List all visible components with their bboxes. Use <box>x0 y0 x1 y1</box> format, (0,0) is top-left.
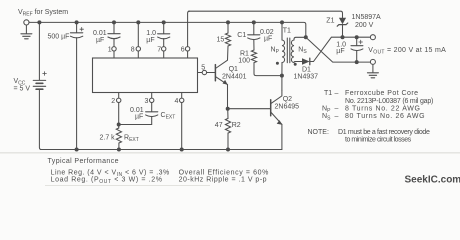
wire feedback top <box>189 11 343 17</box>
svg-text:500 µF: 500 µF <box>48 34 70 41</box>
wire Np top <box>281 22 283 40</box>
svg-text:R2: R2 <box>232 122 241 129</box>
node dot 500uF top <box>75 20 79 24</box>
node dot Np rail <box>280 20 284 24</box>
svg-text:6: 6 <box>181 47 185 54</box>
svg-text:1N4937: 1N4937 <box>294 74 319 81</box>
svg-text:µF: µF <box>264 36 272 43</box>
svg-text:D1: D1 <box>302 67 311 74</box>
ground (VREF terminal) <box>21 25 32 39</box>
svg-text:80 Turns No. 26 AWG: 80 Turns No. 26 AWG <box>345 113 425 120</box>
svg-text:–: – <box>335 90 339 97</box>
battery VCC <box>33 72 46 90</box>
pin 7 circle <box>162 47 166 51</box>
node dot C1 rail <box>252 20 256 24</box>
svg-text:T1: T1 <box>324 90 332 97</box>
svg-text:T1: T1 <box>283 27 291 34</box>
pin 6 circle <box>185 47 189 51</box>
transformer T1 core <box>287 38 290 63</box>
capacitor 500uF <box>70 22 83 149</box>
node dot cap top <box>355 35 359 39</box>
svg-text:8: 8 <box>131 47 135 54</box>
svg-text:1N5897A: 1N5897A <box>352 14 382 21</box>
node A dot <box>304 35 308 39</box>
svg-text:47: 47 <box>215 122 223 129</box>
node dot Z1 bottom <box>341 35 345 39</box>
wire crossing X: node A down to bottom rail <box>306 37 371 62</box>
inductor Np primary winding <box>282 40 285 63</box>
svg-text:Q1: Q1 <box>229 66 238 73</box>
node dot pin8 rail <box>136 20 140 24</box>
svg-text:–: – <box>335 113 339 120</box>
terminal VOUT- <box>370 59 375 64</box>
resistor REXT 2.7k <box>116 128 121 143</box>
capacitor 1.0uF pin7 <box>158 22 170 46</box>
node dot REXT bottom <box>117 148 121 152</box>
svg-text:NP: NP <box>271 46 280 55</box>
svg-text:–: – <box>335 106 339 113</box>
svg-text:REXT: REXT <box>124 134 139 143</box>
wire pin 8 <box>137 22 139 46</box>
svg-text:µF: µF <box>135 114 143 121</box>
svg-text:D1 must be a fast recovery dio: D1 must be a fast recovery diode <box>338 129 430 136</box>
pin 3 circle <box>150 98 154 102</box>
node dot pin4 bottom <box>180 148 184 152</box>
svg-text:No. 2213P-L00387 (6 mil gap): No. 2213P-L00387 (6 mil gap) <box>345 98 433 105</box>
svg-text:CEXT: CEXT <box>161 112 176 121</box>
svg-text:VREF for System: VREF for System <box>18 9 68 17</box>
pin 8 circle <box>136 47 140 51</box>
inductor NS secondary winding <box>291 40 294 63</box>
pin 4 circle <box>180 98 184 102</box>
node battery tap dot <box>37 20 41 24</box>
pin 4 wire <box>181 103 183 150</box>
capacitor 1.0uF output <box>351 37 363 62</box>
svg-text:5: 5 <box>201 65 205 72</box>
svg-text:to minimize circuit losses: to minimize circuit losses <box>345 136 412 143</box>
ground (output) <box>367 64 378 77</box>
op IC box U1 <box>93 58 198 93</box>
svg-text:NOTE:: NOTE: <box>308 129 329 136</box>
svg-text:7: 7 <box>157 47 161 54</box>
svg-text:20-kHz Ripple = .1 V p-p: 20-kHz Ripple = .1 V p-p <box>179 177 267 184</box>
wire Q1 emitter to Q2 base <box>228 108 271 110</box>
diode D1 1N4937 <box>302 58 314 65</box>
resistor R1 100 ohm <box>251 50 256 63</box>
svg-text:2N4401: 2N4401 <box>222 74 247 81</box>
svg-text:Overall Efficiency = 60%: Overall Efficiency = 60% <box>179 169 269 176</box>
transistor Q1 2N4401 <box>215 60 227 108</box>
svg-text:SeekIC.com: SeekIC.com <box>405 175 460 186</box>
wire battery top <box>38 22 40 80</box>
node dot Q1 emitter junction <box>226 107 230 111</box>
transistor Q2 2N6495 <box>271 90 282 149</box>
pin 5 circle <box>202 70 206 74</box>
svg-text:2N6495: 2N6495 <box>275 103 300 110</box>
svg-text:NS: NS <box>298 46 307 55</box>
svg-text:2: 2 <box>111 98 115 105</box>
svg-text:= 5 V: = 5 V <box>14 86 31 93</box>
wire VREF top rail <box>29 22 306 35</box>
node dot 500uF bottom <box>75 148 79 152</box>
node dot 0.01uF top <box>112 20 116 24</box>
wire (faint scan streak) <box>0 152 460 153</box>
svg-text:Typical Performance: Typical Performance <box>48 158 119 165</box>
resistor R2 47 ohm <box>225 118 230 133</box>
pin 2 wire <box>118 103 120 128</box>
capacitor 0.01uF pin1 <box>108 22 120 46</box>
node dot pin2/CEXT junction <box>117 123 121 127</box>
wire crossing X: D1 up to top rail <box>314 37 371 61</box>
node phase dot Np <box>276 62 279 65</box>
svg-text:µF: µF <box>96 37 104 44</box>
terminal VOUT+ <box>370 35 375 40</box>
svg-text:µF: µF <box>336 48 344 55</box>
svg-text:1: 1 <box>108 47 112 54</box>
wire NS bottom to D1 <box>294 62 302 63</box>
wire bottom rail <box>40 149 282 151</box>
svg-text:Q2: Q2 <box>283 96 292 103</box>
svg-text:8 Turns No. 22 AWG: 8 Turns No. 22 AWG <box>345 106 421 113</box>
svg-text:15: 15 <box>217 37 225 44</box>
pin 3 wire <box>151 103 153 112</box>
node dot 15ohm rail <box>226 20 230 24</box>
node VREF terminal <box>24 20 29 25</box>
capacitor CEXT <box>119 112 158 125</box>
svg-text:VOUT = 200 V at 15 mA: VOUT = 200 V at 15 mA <box>368 47 446 56</box>
wire battery bottom to rail <box>39 90 41 150</box>
svg-text:4: 4 <box>175 98 179 105</box>
node dot cap bottom <box>355 60 359 64</box>
svg-text:2.7 k: 2.7 k <box>100 134 116 141</box>
pin 5 wire <box>198 72 203 74</box>
svg-text:Z1: Z1 <box>326 17 334 24</box>
wire pin 6 feedback riser <box>188 11 190 46</box>
node dot primary junction <box>280 74 284 78</box>
capacitor C1 0.02uF <box>248 22 260 50</box>
svg-text:Ferroxcube Pot Core: Ferroxcube Pot Core <box>345 90 419 97</box>
pin 1 circle <box>112 47 116 51</box>
node dot 1.0uF top <box>162 20 166 24</box>
wire NS top to node A <box>294 37 306 40</box>
svg-text:Load Reg. (POUT < 3 W) = .2%: Load Reg. (POUT < 3 W) = .2% <box>51 177 163 186</box>
node phase dot NS <box>294 63 297 66</box>
svg-text:3: 3 <box>145 98 149 105</box>
svg-text:µF: µF <box>146 37 154 44</box>
svg-text:C1: C1 <box>237 32 246 39</box>
node dot R2 bottom <box>226 148 230 152</box>
svg-text:100: 100 <box>238 57 250 64</box>
zener Z1 1N5897A <box>337 18 348 37</box>
resistor 15 ohm <box>225 33 230 46</box>
svg-text:200 V: 200 V <box>355 22 374 29</box>
pin 2 circle <box>117 98 121 102</box>
